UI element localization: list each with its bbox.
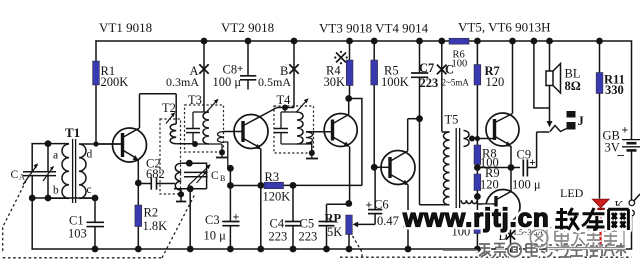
- resistor R8: [474, 145, 499, 174]
- wire CA top link: [32, 143, 48, 145]
- wire bottom ground rail: [32, 248, 631, 250]
- capacitor C8: [240, 41, 256, 90]
- svg-text:223: 223: [299, 230, 318, 244]
- svg-text:223: 223: [269, 230, 288, 244]
- wire T1 bottom bus: [32, 197, 95, 199]
- svg-text:0.3mA: 0.3mA: [166, 75, 199, 89]
- svg-text:–: –: [617, 147, 625, 162]
- transistor VT6: [486, 168, 520, 250]
- wire top supply rail left of R6: [96, 40, 449, 42]
- measurement cross B: [289, 64, 298, 73]
- svg-text:0.5mA: 0.5mA: [258, 75, 291, 89]
- resistor R6 on rail: [449, 38, 469, 44]
- switch K: [629, 200, 635, 206]
- measurement cross C: [437, 65, 447, 75]
- transistor VT1: [96, 94, 176, 183]
- svg-text:223: 223: [420, 76, 439, 90]
- svg-text:VT5, VT6 9013H: VT5, VT6 9013H: [458, 20, 551, 35]
- wire R4 node across and down: [349, 99, 362, 186]
- svg-text:a: a: [53, 150, 58, 162]
- svg-text:+: +: [233, 210, 240, 224]
- svg-text:RP: RP: [325, 212, 342, 226]
- transistor VT3: [324, 99, 357, 204]
- svg-text:b: b: [53, 185, 59, 197]
- svg-text:LED: LED: [560, 186, 584, 200]
- gang dashed line CA-CB: [3, 181, 195, 258]
- wire CA second gang leg: [47, 144, 49, 198]
- capacitor C5: [319, 204, 335, 249]
- resistor R11: [596, 41, 625, 199]
- svg-text:+: +: [622, 123, 629, 137]
- svg-text:+: +: [529, 155, 536, 169]
- resistor R3: [261, 170, 362, 204]
- IF transformer T4 dashed box: [274, 106, 314, 153]
- T3 primary winding: [203, 112, 209, 144]
- svg-text:C1: C1: [69, 214, 84, 228]
- measurement point B wire: [293, 41, 295, 108]
- wire osc tank to ground rail: [189, 189, 191, 249]
- resistor R7: [474, 41, 504, 145]
- resistor R2: [135, 183, 167, 249]
- junction dots misc: [29, 95, 515, 207]
- svg-text:C6: C6: [374, 198, 389, 212]
- svg-text:30K: 30K: [324, 75, 346, 89]
- wire CA left leg: [31, 144, 33, 249]
- transformer T2 (osc) dashed box: [160, 119, 181, 194]
- T3 tuning arrow: [206, 101, 217, 113]
- transistor VT4: [374, 119, 419, 249]
- resistor R10: [452, 215, 481, 249]
- resistor R4: [324, 41, 354, 99]
- svg-text:10 μ: 10 μ: [204, 229, 227, 243]
- junction dots top rail: [201, 38, 603, 45]
- svg-text:VT3 9018 VT4 9014: VT3 9018 VT4 9014: [319, 21, 429, 36]
- reference mark: [336, 53, 346, 63]
- measurement cross A: [199, 64, 208, 73]
- transistor VT2: [234, 108, 294, 250]
- svg-text:682: 682: [146, 167, 165, 181]
- svg-text:R3: R3: [265, 170, 280, 184]
- svg-text:www.rjtj.cn: www.rjtj.cn: [402, 203, 550, 233]
- svg-text:2~5mA: 2~5mA: [442, 78, 470, 88]
- svg-text:C3: C3: [205, 213, 220, 227]
- battery GB: [622, 41, 640, 200]
- capacitor C2: [138, 177, 175, 189]
- svg-text:100 μ: 100 μ: [512, 178, 541, 192]
- T3 core electrode: [216, 152, 228, 157]
- measurement point A wire: [203, 41, 205, 112]
- gang dashed line RP-K: [340, 236, 632, 257]
- watermark CJK chars ruan-cun-wang (hand strokes with halo): [555, 208, 629, 230]
- svg-text:103: 103: [68, 227, 87, 241]
- transformer T1: [48, 139, 123, 203]
- svg-text:1.8K: 1.8K: [143, 219, 168, 233]
- svg-text:+: +: [237, 63, 243, 75]
- watermark row: gray embossed logo + dianli text: [530, 228, 625, 249]
- svg-text:R2: R2: [144, 206, 159, 220]
- svg-text:+: +: [366, 198, 373, 212]
- T2 ground electrode: [176, 189, 186, 202]
- IF transformer T3 dashed box: [185, 105, 224, 152]
- svg-text:200K: 200K: [101, 75, 129, 89]
- jack J body: [567, 111, 576, 130]
- svg-text:T1: T1: [65, 125, 80, 140]
- output node wire to C9: [477, 167, 520, 169]
- T4 internal capacitor: [274, 112, 288, 144]
- svg-text:C7: C7: [419, 61, 434, 75]
- variable capacitor CA (2-gang): [23, 165, 56, 185]
- capacitor C6: [368, 167, 382, 224]
- T4 secondary winding: [306, 132, 313, 143]
- T4 core electrode: [306, 153, 318, 159]
- svg-text:C5: C5: [300, 217, 315, 231]
- svg-text:120: 120: [486, 75, 505, 89]
- measurement point C wire: [441, 41, 443, 132]
- wire C3 node bus: [229, 168, 231, 221]
- svg-text:T5: T5: [445, 113, 459, 127]
- potentiometer RP: [325, 212, 376, 250]
- svg-text:C: C: [11, 169, 19, 181]
- T3 internal capacitor: [186, 112, 200, 144]
- T3 top/bottom joins: [193, 112, 222, 152]
- T3 secondary winding: [218, 132, 224, 143]
- transistor VT5: [486, 41, 519, 168]
- svg-text:8Ω: 8Ω: [565, 79, 581, 93]
- svg-text:VT2 9018: VT2 9018: [221, 20, 274, 35]
- junction dots bottom rail: [92, 246, 514, 253]
- svg-text:100K: 100K: [381, 75, 409, 89]
- wire RP top to C5: [327, 203, 349, 205]
- T4 entry from collector: [284, 108, 286, 113]
- svg-text:330: 330: [605, 83, 624, 97]
- oscillator tank frame with CB: [174, 163, 209, 189]
- capacitor C7 + line: [411, 41, 447, 205]
- VT5 base wire: [469, 138, 495, 140]
- svg-text:C: C: [211, 170, 219, 182]
- svg-text:5K: 5K: [327, 225, 342, 239]
- T4 primary winding: [297, 112, 303, 144]
- T4 tuning arrow: [296, 100, 307, 113]
- watermark row: gray embossed toutiao text: [443, 243, 627, 259]
- svg-text:120K: 120K: [263, 190, 291, 204]
- svg-text:120: 120: [480, 178, 499, 192]
- svg-text:100 μ: 100 μ: [213, 75, 242, 89]
- T2 tuning arrow: [166, 114, 174, 124]
- T2 lower winding (osc coil): [175, 163, 181, 190]
- svg-text:A: A: [19, 173, 25, 182]
- T2 upper winding: [170, 94, 195, 144]
- measurement cross D: [506, 230, 515, 239]
- jack J plug arrow and contact: [547, 121, 553, 127]
- capacitor C9: [523, 132, 549, 177]
- svg-text:B: B: [220, 174, 225, 183]
- svg-text:VT1 9018: VT1 9018: [99, 20, 152, 35]
- resistor R9: [474, 166, 500, 215]
- capacitor C1: [87, 198, 105, 249]
- VT6 base wire: [477, 203, 496, 205]
- svg-text:C4: C4: [270, 217, 285, 231]
- capacitor C3: [222, 222, 239, 250]
- capacitor C4: [285, 185, 301, 249]
- svg-text:c: c: [87, 184, 92, 196]
- resistor R5: [371, 41, 409, 167]
- svg-text:J: J: [578, 114, 584, 128]
- svg-text:T3: T3: [188, 93, 202, 107]
- speaker BL: [534, 41, 561, 124]
- resistor R1: [93, 61, 129, 89]
- wire top supply rail right of R6: [469, 40, 632, 42]
- svg-text:d: d: [87, 149, 93, 161]
- wire left edge from top rail down to VT1 base node: [95, 41, 97, 144]
- svg-text:100: 100: [452, 59, 468, 70]
